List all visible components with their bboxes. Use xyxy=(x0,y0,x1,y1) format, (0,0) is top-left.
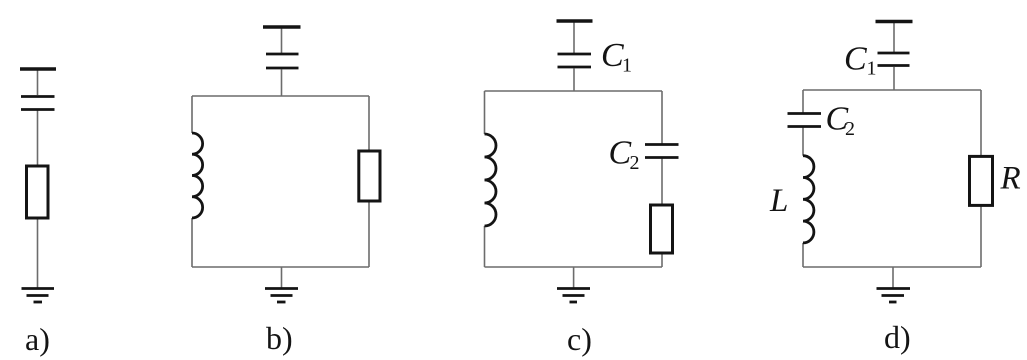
svg-text:2: 2 xyxy=(845,118,855,140)
svg-text:L: L xyxy=(769,183,788,219)
svg-text:C: C xyxy=(844,41,867,78)
svg-text:a): a) xyxy=(25,321,50,357)
svg-text:R: R xyxy=(1000,161,1021,197)
svg-text:1: 1 xyxy=(867,58,877,80)
svg-text:b): b) xyxy=(266,320,293,356)
svg-text:1: 1 xyxy=(622,55,632,77)
svg-text:C: C xyxy=(601,37,624,74)
svg-text:C: C xyxy=(609,135,632,172)
svg-text:d): d) xyxy=(884,319,911,355)
svg-text:c): c) xyxy=(567,321,592,357)
svg-text:2: 2 xyxy=(630,152,640,174)
